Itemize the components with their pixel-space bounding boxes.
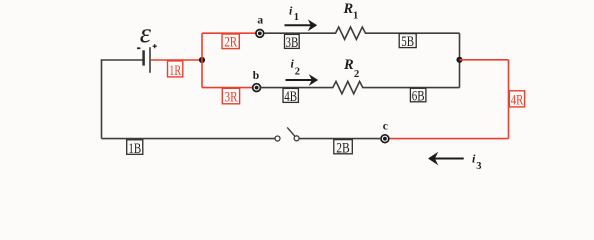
box 4B: [283, 88, 298, 105]
label R1: [343, 1, 359, 22]
wire: bottom black rail from switch to node c: [299, 138, 381, 140]
node c: [381, 135, 389, 143]
wire: right red vertical rail: [508, 60, 510, 139]
svg-text:5B: 5B: [401, 34, 414, 50]
svg-text:R: R: [343, 57, 354, 73]
switch lever: [287, 127, 295, 136]
label i1: [289, 4, 299, 24]
svg-text:1: 1: [294, 12, 299, 23]
wire: left vertical from battery lead down to bottom rail: [101, 60, 103, 139]
junction dot (right): [456, 57, 462, 63]
svg-text:1R: 1R: [169, 63, 181, 79]
node a: [256, 30, 264, 38]
box 4R: [509, 91, 524, 109]
battery EMF source: [144, 47, 150, 73]
wire: top branch red segment to node a: [202, 32, 256, 34]
switch (open): [275, 127, 299, 141]
battery long positive plate: [149, 47, 151, 73]
label i3: [472, 152, 481, 173]
svg-text:b: b: [253, 70, 259, 82]
label: minus sign: [137, 47, 140, 49]
wire: battery positive lead (red) to left junction: [151, 59, 202, 61]
svg-text:2: 2: [354, 69, 359, 80]
svg-text:3: 3: [476, 161, 481, 172]
current arrow i1: [285, 19, 318, 31]
box 3B: [285, 34, 300, 51]
svg-text:a: a: [257, 14, 263, 26]
wire: bottom branch red segment to node b: [202, 87, 253, 89]
wire: right black vertical joining branches: [459, 33, 461, 87]
label R2: [343, 57, 359, 80]
wire: bottom black rail from left vertical to switch: [102, 138, 275, 140]
box 2B: [334, 140, 353, 157]
svg-text:1B: 1B: [128, 141, 141, 157]
svg-text:2B: 2B: [336, 140, 350, 156]
box 2R: [222, 34, 239, 51]
svg-text:2R: 2R: [224, 35, 237, 51]
label i2: [291, 56, 301, 77]
box 3R: [222, 88, 239, 105]
current arrow i3 (points left): [428, 152, 464, 165]
wire: bottom red rail from right rail to node c: [389, 138, 509, 140]
box 1B: [127, 140, 143, 157]
battery short negative plate: [142, 50, 145, 65]
current arrow i2: [286, 74, 319, 86]
junction dot (left): [199, 57, 205, 63]
box 5B: [399, 34, 416, 50]
svg-text:6B: 6B: [412, 88, 425, 104]
wire: left red vertical between branches: [201, 33, 203, 87]
svg-text:3B: 3B: [286, 35, 299, 51]
svg-text:1: 1: [353, 11, 358, 22]
wire: battery negative lead: [101, 59, 143, 61]
wire: top branch black with resistor R1 zigzag: [264, 27, 460, 39]
label: plus sign: [153, 44, 157, 48]
svg-text:4R: 4R: [511, 93, 524, 109]
wire: bottom branch black with resistor R2 zigzag: [261, 81, 460, 93]
svg-text:2: 2: [295, 67, 300, 78]
svg-text:4B: 4B: [284, 89, 297, 105]
box 1R: [168, 61, 183, 79]
wire: red from right junction to right rail: [460, 59, 509, 61]
box 6B: [410, 88, 426, 104]
node b: [253, 84, 261, 92]
svg-text:ε: ε: [140, 18, 152, 48]
svg-text:R: R: [343, 1, 354, 17]
svg-text:c: c: [383, 121, 388, 133]
svg-text:3R: 3R: [225, 90, 238, 106]
